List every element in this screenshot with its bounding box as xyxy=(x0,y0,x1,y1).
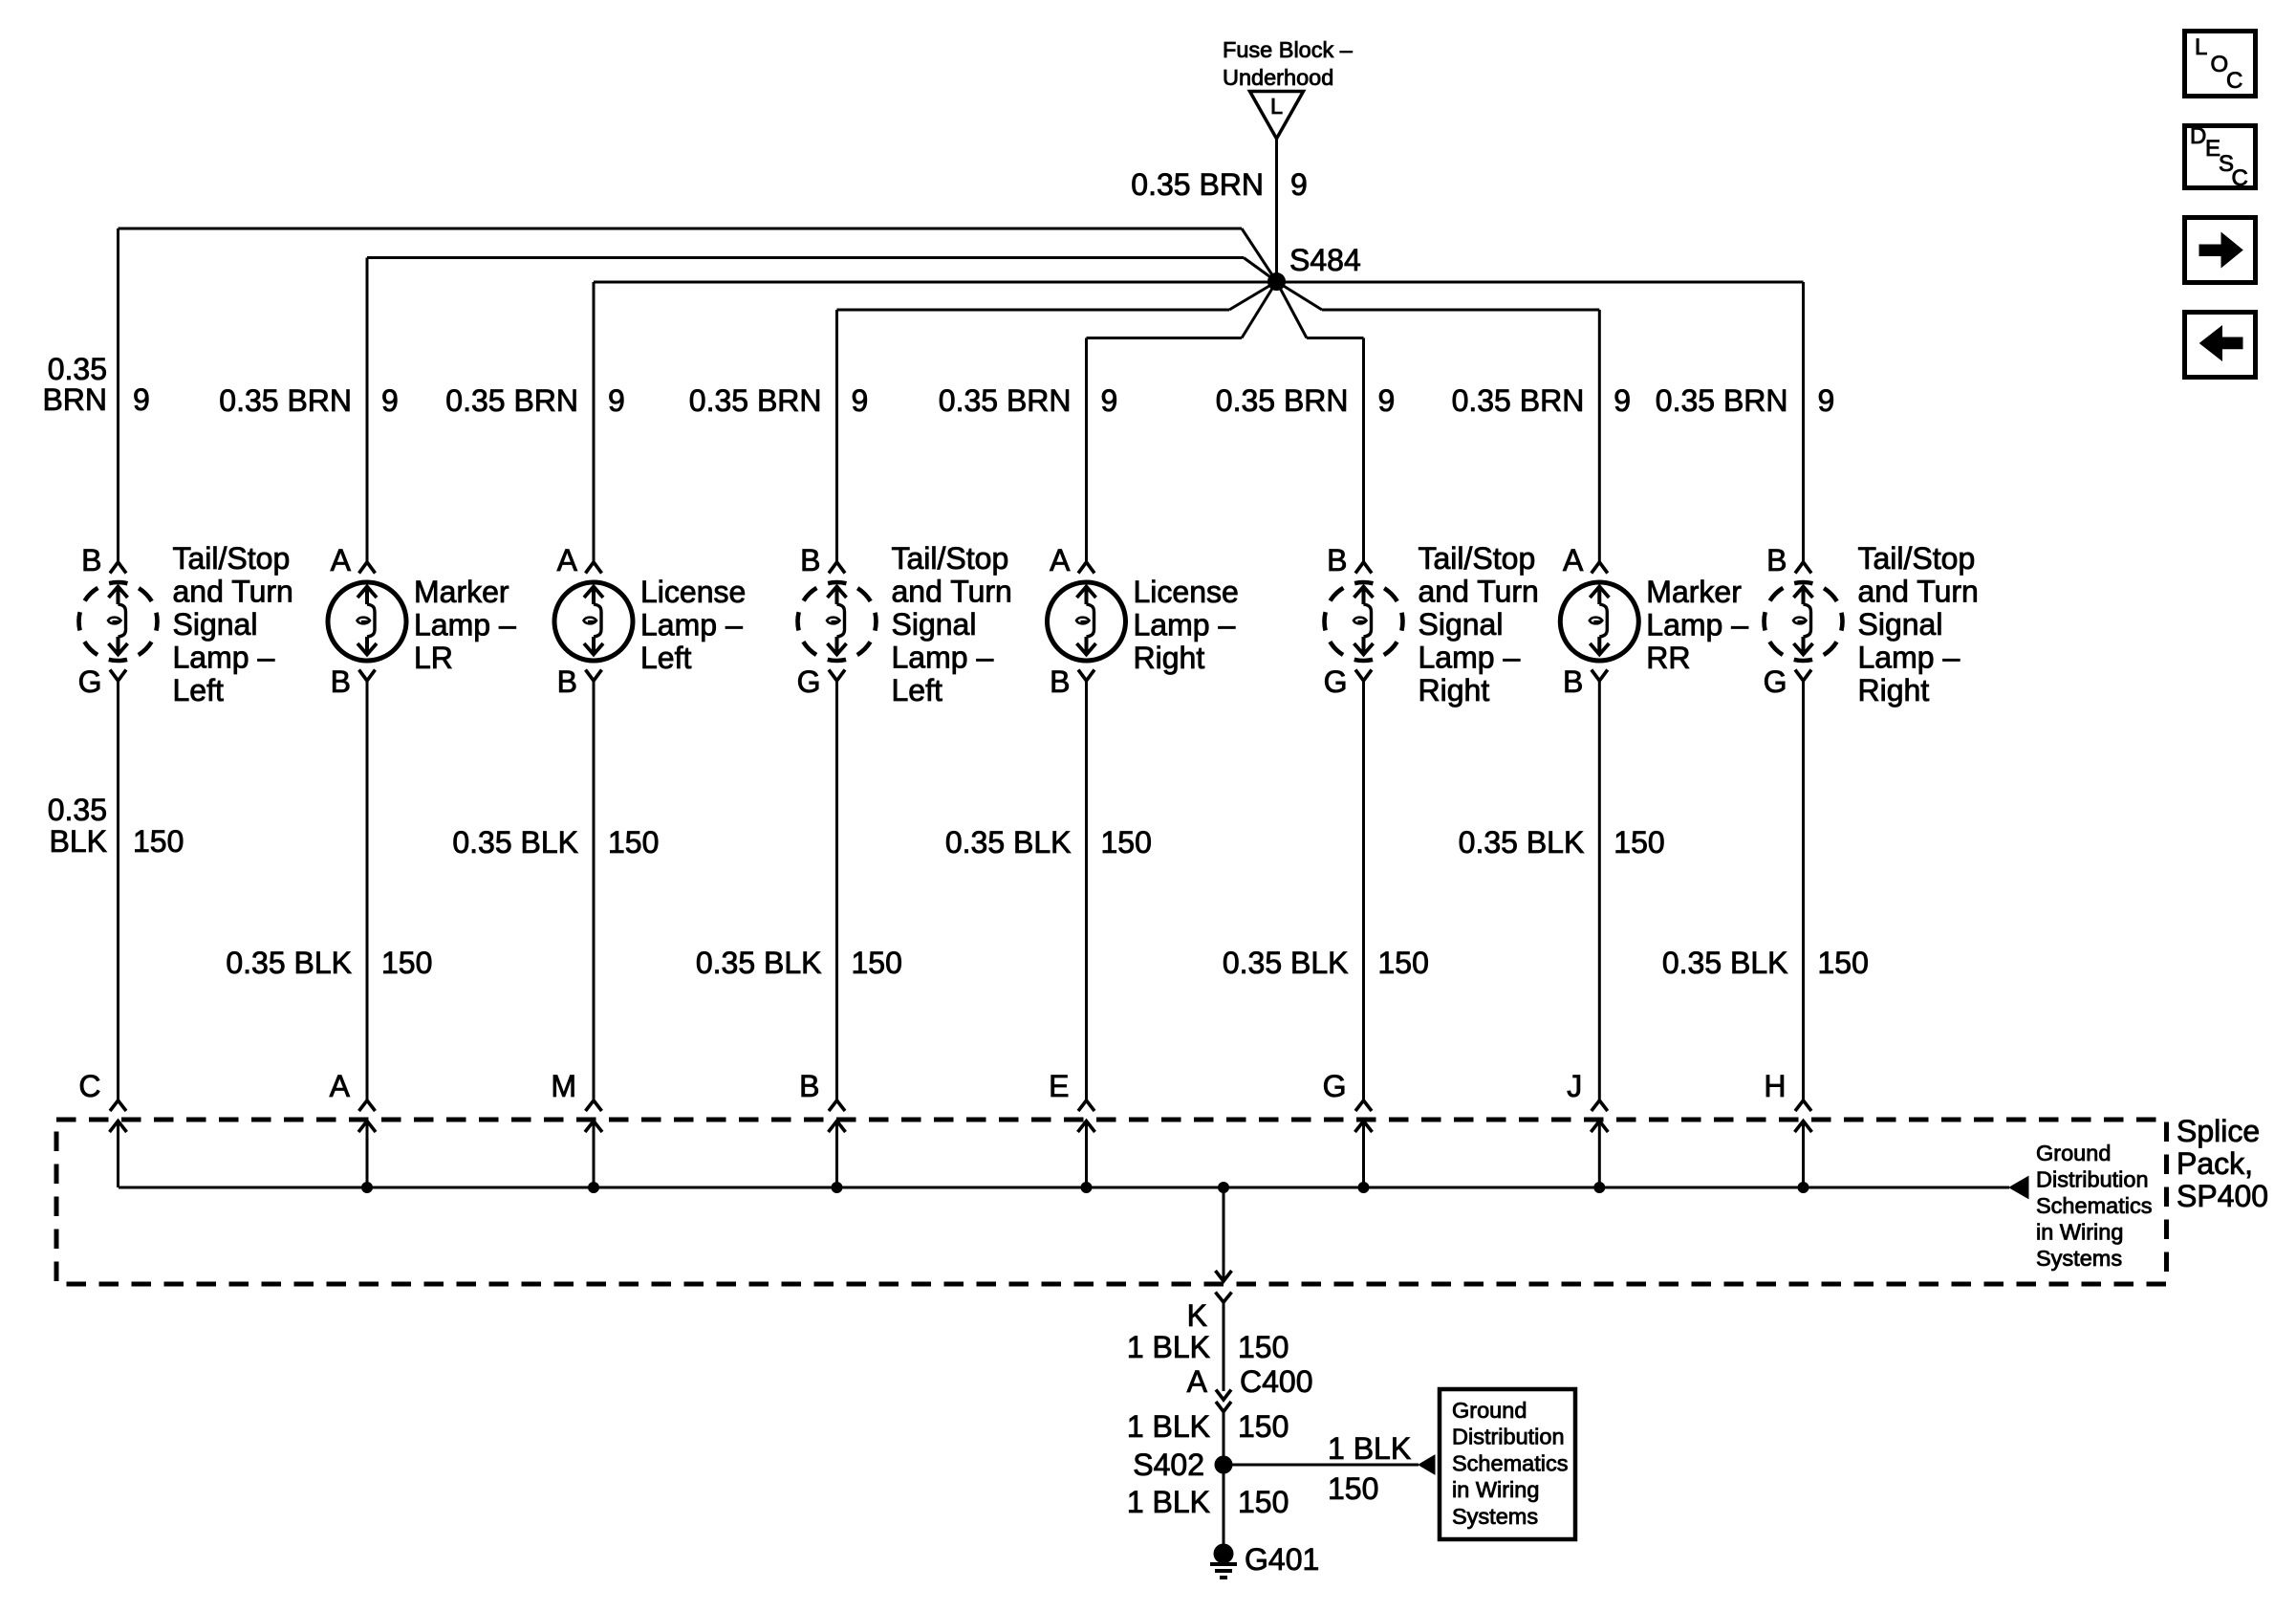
connector pin B at top of left tail/stop lamp (2) xyxy=(800,543,845,577)
label 0.35 BRN 9 (wire 3) xyxy=(445,383,625,418)
lamp name label: Tail/Stop and Turn Signal Lamp – Left xyxy=(892,541,1012,708)
svg-text:9: 9 xyxy=(1818,383,1835,418)
connector pin B at top of left tail/stop lamp xyxy=(81,543,126,577)
wire: fuse block to S484, 0.35 BRN circuit 9 xyxy=(1131,139,1308,282)
connector pin B at bottom of marker lamp LR xyxy=(331,664,376,699)
svg-text:G: G xyxy=(1764,664,1787,699)
off-page arrow to ground distribution schematics xyxy=(2009,1177,2028,1199)
svg-text:Tail/Stop: Tail/Stop xyxy=(173,541,291,576)
wire: marker lamp LR to splice pack, 0.35 BLK circuit 150 xyxy=(366,681,369,1100)
svg-text:SP400: SP400 xyxy=(2177,1179,2268,1213)
svg-text:Lamp –: Lamp – xyxy=(1858,641,1960,675)
label 0.35 BRN 9 (wire 1) xyxy=(42,352,149,417)
svg-text:1 BLK: 1 BLK xyxy=(1328,1431,1411,1466)
label 0.35 BRN 9 (wire 4) xyxy=(689,383,869,418)
svg-text:9: 9 xyxy=(852,383,869,418)
lamp bulb symbol: Tail/Stop and Turn Signal Lamp – Right xyxy=(1765,582,1843,661)
svg-text:Lamp –: Lamp – xyxy=(1134,608,1236,642)
label 0.35 BLK 150 (wire 2) xyxy=(226,946,432,980)
svg-text:150: 150 xyxy=(1238,1485,1289,1519)
svg-text:Lamp –: Lamp – xyxy=(1646,608,1748,642)
svg-text:Pack,: Pack, xyxy=(2177,1146,2253,1181)
connector pin G at bottom of right tail/stop lamp (2) xyxy=(1764,664,1811,699)
svg-text:BLK: BLK xyxy=(50,824,107,859)
label: Ground Distribution Schematics in Wiring Systems (splice pack) xyxy=(2036,1141,2152,1271)
connector pin A at top of license lamp right xyxy=(1050,543,1094,577)
svg-text:0.35 BLK: 0.35 BLK xyxy=(452,825,578,860)
svg-text:9: 9 xyxy=(608,383,625,418)
wire: S402 to ground distribution schematics, 1 BLK 150 xyxy=(1224,1431,1419,1506)
svg-text:C: C xyxy=(78,1069,100,1103)
wire: pin K to connector C400, 1 BLK 150 xyxy=(1127,1302,1289,1391)
svg-text:B: B xyxy=(81,543,101,577)
bus junction dot 8 xyxy=(1219,1183,1229,1193)
svg-text:A: A xyxy=(1563,543,1584,577)
svg-text:Lamp –: Lamp – xyxy=(414,608,516,642)
svg-text:1 BLK: 1 BLK xyxy=(1127,1485,1210,1519)
wire: S484 fan-out to left tail/stop lamp (2) xyxy=(837,282,1277,564)
svg-text:Left: Left xyxy=(640,641,691,675)
wire: bus to pin K, 1 BLK circuit 150 xyxy=(1216,1187,1232,1281)
connector pin E into splice pack SP400 (wire 5) xyxy=(1049,1069,1094,1187)
label 0.35 BLK 150 (wire 7) xyxy=(1459,825,1665,860)
lamp bulb symbol: License Lamp – Right xyxy=(1048,582,1126,661)
svg-text:G: G xyxy=(78,664,102,699)
wire: license lamp left to splice pack, 0.35 BLK circuit 150 xyxy=(593,681,596,1100)
lamp bulb symbol: Marker Lamp – RR xyxy=(1560,582,1638,661)
svg-text:Left: Left xyxy=(892,673,942,708)
svg-text:and Turn: and Turn xyxy=(892,575,1012,609)
svg-text:Signal: Signal xyxy=(1419,607,1504,642)
label 0.35 BRN 9 (wire 2) xyxy=(219,383,399,418)
svg-text:150: 150 xyxy=(133,824,184,859)
nav icon box left arrow xyxy=(2185,313,2256,378)
bus junction dot 7 xyxy=(1798,1183,1809,1193)
connector pin G into splice pack SP400 (wire 6) xyxy=(1323,1069,1373,1187)
svg-text:Lamp –: Lamp – xyxy=(1419,641,1521,675)
svg-text:License: License xyxy=(1134,575,1239,609)
svg-text:A: A xyxy=(330,1069,351,1103)
svg-text:and Turn: and Turn xyxy=(1858,575,1979,609)
wire: S484 fan-out to license lamp right xyxy=(1087,282,1277,564)
svg-text:150: 150 xyxy=(1101,825,1152,860)
svg-text:B: B xyxy=(1766,543,1787,577)
svg-text:and Turn: and Turn xyxy=(173,575,293,609)
svg-text:0.35 BLK: 0.35 BLK xyxy=(696,946,822,980)
label 0.35 BLK 150 (wire 6) xyxy=(1223,946,1429,980)
svg-text:E: E xyxy=(1049,1069,1069,1103)
wire: S484 fan-out to right tail/stop lamp (2) xyxy=(1802,282,1805,563)
svg-text:9: 9 xyxy=(1614,383,1631,418)
label 0.35 BRN 9 (wire 5) xyxy=(939,383,1118,418)
bus junction dot 3 xyxy=(832,1183,842,1193)
svg-text:Distribution: Distribution xyxy=(2036,1167,2149,1192)
wire: S484 through line to lamps 3 and 8 xyxy=(594,281,1804,284)
svg-text:0.35: 0.35 xyxy=(48,793,107,827)
lamp name label: Marker Lamp – LR xyxy=(414,575,516,675)
svg-text:LR: LR xyxy=(414,641,453,675)
lamp bulb symbol: Marker Lamp – LR xyxy=(328,582,406,661)
svg-text:0.35 BLK: 0.35 BLK xyxy=(945,825,1072,860)
svg-text:9: 9 xyxy=(1378,383,1396,418)
connector C400 pin A xyxy=(1187,1364,1313,1412)
boxed label: Ground Distribution Schematics in Wiring Systems xyxy=(1440,1389,1575,1539)
nav icon box DESC xyxy=(2185,123,2256,191)
svg-text:150: 150 xyxy=(1378,946,1429,980)
svg-text:Signal: Signal xyxy=(892,607,977,642)
svg-text:0.35 BLK: 0.35 BLK xyxy=(1662,946,1788,980)
connector pin B into splice pack SP400 (wire 4) xyxy=(799,1069,845,1187)
svg-text:0.35 BRN: 0.35 BRN xyxy=(1656,383,1788,418)
svg-text:D: D xyxy=(2190,123,2206,149)
svg-text:K: K xyxy=(1187,1298,1207,1333)
wire: S484 fan-out to license lamp left xyxy=(593,282,596,563)
svg-text:150: 150 xyxy=(1328,1471,1378,1506)
wire: license lamp right to splice pack, 0.35 BLK circuit 150 xyxy=(1085,681,1088,1100)
svg-text:B: B xyxy=(331,664,351,699)
nav icon box right arrow xyxy=(2185,218,2256,283)
lamp bulb symbol: Tail/Stop and Turn Signal Lamp – Left xyxy=(798,582,877,661)
svg-text:B: B xyxy=(1563,664,1583,699)
svg-text:150: 150 xyxy=(1238,1409,1289,1444)
svg-text:9: 9 xyxy=(381,383,399,418)
svg-text:0.35 BLK: 0.35 BLK xyxy=(1223,946,1349,980)
svg-text:Fuse Block –: Fuse Block – xyxy=(1223,37,1354,62)
connector pin G at bottom of left tail/stop lamp xyxy=(78,664,126,699)
svg-text:Marker: Marker xyxy=(1646,575,1742,609)
svg-text:Schematics: Schematics xyxy=(1452,1450,1568,1475)
svg-text:0.35 BRN: 0.35 BRN xyxy=(1131,167,1264,202)
svg-text:Right: Right xyxy=(1134,641,1205,675)
svg-text:A: A xyxy=(1050,543,1071,577)
label Splice Pack, SP400 xyxy=(2177,1114,2268,1213)
svg-text:S484: S484 xyxy=(1289,243,1361,277)
svg-text:Right: Right xyxy=(1419,673,1490,708)
svg-text:L: L xyxy=(1270,94,1283,119)
svg-text:Marker: Marker xyxy=(414,575,509,609)
svg-text:Ground: Ground xyxy=(2036,1141,2111,1165)
svg-text:C: C xyxy=(2226,68,2242,94)
label 0.35 BLK 150 (wire 3) xyxy=(452,825,659,860)
wire: right tail/stop lamp to splice pack, 0.35 BLK circuit 150 xyxy=(1362,681,1365,1100)
label 0.35 BRN 9 (wire 6) xyxy=(1216,383,1396,418)
connector pin C into splice pack SP400 (wire 1) xyxy=(78,1069,126,1187)
connector pin A into splice pack SP400 (wire 2) xyxy=(330,1069,376,1187)
svg-text:C400: C400 xyxy=(1240,1364,1313,1399)
svg-text:J: J xyxy=(1567,1069,1582,1103)
fuse block label xyxy=(1223,37,1354,90)
svg-text:Systems: Systems xyxy=(1452,1504,1538,1529)
svg-text:0.35 BLK: 0.35 BLK xyxy=(1459,825,1585,860)
label 0.35 BLK 150 (wire 5) xyxy=(945,825,1152,860)
svg-text:1 BLK: 1 BLK xyxy=(1127,1330,1210,1364)
wire: S484 fan-out to marker lamp LR xyxy=(367,258,1277,564)
svg-text:Tail/Stop: Tail/Stop xyxy=(892,541,1009,576)
connector pin A at top of marker lamp LR xyxy=(331,543,376,577)
svg-text:0.35 BRN: 0.35 BRN xyxy=(445,383,578,418)
svg-text:0.35 BRN: 0.35 BRN xyxy=(219,383,352,418)
splice S484 xyxy=(1268,243,1361,291)
svg-text:B: B xyxy=(1050,664,1070,699)
connector pin B at bottom of license lamp left xyxy=(557,664,602,699)
svg-text:Left: Left xyxy=(173,673,224,708)
svg-text:A: A xyxy=(1187,1364,1208,1399)
splice S402 xyxy=(1133,1448,1232,1482)
connector pin A at top of marker lamp RR xyxy=(1563,543,1608,577)
svg-text:RR: RR xyxy=(1646,641,1690,675)
nav icon box LOC xyxy=(2185,32,2256,97)
svg-text:9: 9 xyxy=(1290,167,1308,202)
connector pin B at top of right tail/stop lamp xyxy=(1327,543,1372,577)
connector pin M into splice pack SP400 (wire 3) xyxy=(551,1069,602,1187)
svg-text:0.35 BLK: 0.35 BLK xyxy=(226,946,352,980)
svg-text:B: B xyxy=(557,664,577,699)
svg-text:150: 150 xyxy=(852,946,902,980)
connector pin A at top of license lamp left xyxy=(557,543,602,577)
svg-text:0.35 BRN: 0.35 BRN xyxy=(1452,383,1585,418)
svg-text:150: 150 xyxy=(608,825,659,860)
bus junction dot 6 xyxy=(1594,1183,1605,1193)
svg-text:B: B xyxy=(799,1069,819,1103)
ground G401 xyxy=(1210,1542,1319,1578)
svg-text:0.35 BRN: 0.35 BRN xyxy=(689,383,822,418)
connector pin B at bottom of license lamp right xyxy=(1050,664,1094,699)
svg-text:G: G xyxy=(1324,664,1348,699)
wire: left tail/stop lamp to splice pack, 0.35 BLK circuit 150 xyxy=(117,681,119,1100)
wire: marker lamp RR to splice pack, 0.35 BLK circuit 150 xyxy=(1598,681,1601,1100)
svg-text:B: B xyxy=(1327,543,1347,577)
off-page arrow to ground distribution schematics box xyxy=(1419,1455,1435,1474)
connector pin G at bottom of left tail/stop lamp (2) xyxy=(797,664,845,699)
svg-text:G: G xyxy=(1323,1069,1347,1103)
svg-text:Tail/Stop: Tail/Stop xyxy=(1858,541,1976,576)
svg-text:L: L xyxy=(2195,34,2207,60)
svg-text:Lamp –: Lamp – xyxy=(640,608,743,642)
label 0.35 BRN 9 (wire 8) xyxy=(1656,383,1835,418)
svg-text:Systems: Systems xyxy=(2036,1246,2122,1271)
lamp name label: License Lamp – Right xyxy=(1134,575,1239,675)
label 0.35 BLK 150 (wire 4) xyxy=(696,946,902,980)
lamp bulb symbol: Tail/Stop and Turn Signal Lamp – Left xyxy=(79,582,158,661)
wire: right tail/stop lamp (2) to splice pack, 0.35 BLK circuit 150 xyxy=(1802,681,1805,1100)
svg-text:150: 150 xyxy=(381,946,432,980)
svg-text:Ground: Ground xyxy=(1452,1398,1527,1423)
svg-text:in Wiring: in Wiring xyxy=(2036,1220,2123,1245)
label 0.35 BRN 9 (wire 7) xyxy=(1452,383,1632,418)
svg-text:1 BLK: 1 BLK xyxy=(1127,1409,1210,1444)
svg-text:S402: S402 xyxy=(1133,1448,1204,1482)
svg-text:Lamp –: Lamp – xyxy=(892,641,994,675)
bus junction dot 5 xyxy=(1358,1183,1369,1193)
svg-text:in Wiring: in Wiring xyxy=(1452,1477,1539,1502)
bus junction dot 1 xyxy=(362,1183,373,1193)
connector pin J into splice pack SP400 (wire 7) xyxy=(1567,1069,1608,1187)
svg-text:A: A xyxy=(331,543,352,577)
fuse block connector triangle L xyxy=(1250,92,1304,140)
splice pack SP400 dashed enclosure xyxy=(56,1120,2167,1284)
lamp name label: Tail/Stop and Turn Signal Lamp – Right xyxy=(1419,541,1539,708)
lamp name label: Tail/Stop and Turn Signal Lamp – Left xyxy=(173,541,293,708)
svg-text:and Turn: and Turn xyxy=(1419,575,1539,609)
wire: left tail/stop lamp (2) to splice pack, 0.35 BLK circuit 150 xyxy=(835,681,838,1100)
svg-text:9: 9 xyxy=(133,382,150,417)
svg-text:Splice: Splice xyxy=(2177,1114,2260,1148)
svg-text:0.35 BRN: 0.35 BRN xyxy=(1216,383,1349,418)
svg-text:Underhood: Underhood xyxy=(1223,65,1333,90)
connector pin B at top of right tail/stop lamp (2) xyxy=(1766,543,1811,577)
lamp name label: Marker Lamp – RR xyxy=(1646,575,1748,675)
svg-text:Signal: Signal xyxy=(173,607,258,642)
bus junction dot 2 xyxy=(589,1183,599,1193)
svg-text:Tail/Stop: Tail/Stop xyxy=(1419,541,1536,576)
wire: S402 to ground G401, 1 BLK 150 xyxy=(1127,1473,1289,1546)
svg-text:Distribution: Distribution xyxy=(1452,1425,1565,1449)
label 0.35 BLK 150 (wire 1) xyxy=(48,793,184,859)
label 0.35 BLK 150 (wire 8) xyxy=(1662,946,1869,980)
svg-text:9: 9 xyxy=(1101,383,1118,418)
svg-text:150: 150 xyxy=(1238,1330,1289,1364)
connector pin H into splice pack SP400 (wire 8) xyxy=(1764,1069,1811,1187)
svg-text:A: A xyxy=(557,543,578,577)
svg-text:0.35 BRN: 0.35 BRN xyxy=(939,383,1072,418)
wire: S484 fan-out to right tail/stop lamp xyxy=(1277,282,1364,564)
svg-text:G401: G401 xyxy=(1245,1542,1319,1577)
lamp bulb symbol: Tail/Stop and Turn Signal Lamp – Right xyxy=(1325,582,1403,661)
svg-text:150: 150 xyxy=(1818,946,1869,980)
connector pin G at bottom of right tail/stop lamp xyxy=(1324,664,1372,699)
svg-text:Signal: Signal xyxy=(1858,607,1943,642)
lamp bulb symbol: License Lamp – Left xyxy=(554,582,633,661)
svg-text:C: C xyxy=(2232,165,2248,191)
svg-text:License: License xyxy=(640,575,746,609)
svg-text:B: B xyxy=(800,543,820,577)
lamp name label: License Lamp – Left xyxy=(640,575,746,675)
svg-text:G: G xyxy=(797,664,821,699)
lamp name label: Tail/Stop and Turn Signal Lamp – Right xyxy=(1858,541,1979,708)
ground bus inside splice pack xyxy=(119,1186,2009,1189)
svg-text:M: M xyxy=(551,1069,576,1103)
svg-text:0.35: 0.35 xyxy=(48,352,107,386)
connector pin B at bottom of marker lamp RR xyxy=(1563,664,1608,699)
svg-text:Schematics: Schematics xyxy=(2036,1193,2152,1218)
connector pin K below splice pack xyxy=(1187,1293,1232,1334)
wire: S484 fan-out to marker lamp RR xyxy=(1277,282,1600,564)
svg-text:BRN: BRN xyxy=(42,382,107,417)
bus junction dot 4 xyxy=(1081,1183,1092,1193)
svg-text:150: 150 xyxy=(1614,825,1664,860)
svg-text:H: H xyxy=(1764,1069,1786,1103)
svg-text:Lamp –: Lamp – xyxy=(173,641,275,675)
wire: C400 to splice S402, 1 BLK 150 xyxy=(1127,1409,1289,1457)
svg-text:Right: Right xyxy=(1858,673,1930,708)
wire: S484 fan-out to left tail/stop lamp xyxy=(119,229,1277,563)
